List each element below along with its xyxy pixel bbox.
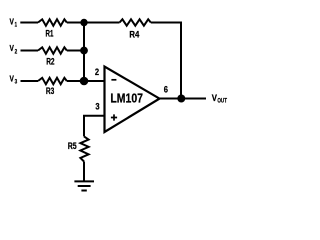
node V1 input label (10, 16, 18, 28)
wire R2 to summing node (67, 50, 84, 52)
node V2 input label (10, 43, 18, 55)
wire R1 to summing node (67, 22, 84, 24)
svg-text:2: 2 (95, 67, 99, 77)
svg-text:V: V (10, 43, 15, 53)
svg-text:R2: R2 (46, 55, 54, 66)
svg-text:3: 3 (15, 80, 18, 86)
svg-text:V: V (212, 93, 217, 103)
svg-text:6: 6 (164, 85, 168, 95)
junction dot node A (R1) (80, 19, 87, 26)
wire V3 to R3 (21, 80, 39, 82)
svg-text:LM107: LM107 (110, 91, 143, 106)
svg-text:3: 3 (95, 102, 99, 112)
wire R4 to output node (151, 23, 181, 99)
svg-text:R3: R3 (46, 85, 54, 96)
resistor R5 (80, 136, 88, 161)
svg-text:R4: R4 (129, 29, 140, 40)
svg-text:R5: R5 (68, 140, 77, 151)
svg-text:OUT: OUT (217, 98, 227, 105)
resistor R2 (38, 47, 67, 53)
wire V1 to R1 (20, 22, 38, 24)
node VOUT label (212, 93, 227, 105)
wire R5 to ground (83, 162, 85, 182)
wire R3 to op-amp pin 2 (67, 80, 105, 82)
ground (74, 180, 94, 182)
svg-text:R1: R1 (46, 28, 54, 39)
junction dot node A (R3 / pin 2) (80, 77, 89, 86)
pin minus sign (111, 79, 116, 81)
junction dot node A (R2) (80, 47, 88, 55)
pin plus sign (111, 114, 117, 120)
resistor R4 (120, 19, 151, 25)
svg-text:2: 2 (15, 49, 18, 55)
wire V2 to R2 (21, 50, 39, 52)
svg-text:V: V (10, 16, 15, 26)
op-amp U1 LM107 (105, 67, 160, 133)
resistor R1 (38, 19, 67, 25)
resistor R3 (38, 78, 67, 84)
junction dot output node (177, 95, 185, 103)
node V3 input label (10, 73, 18, 85)
wire op-amp output (160, 98, 207, 100)
wire summing bus vertical (83, 23, 85, 82)
wire summing node to R4 (84, 22, 120, 24)
svg-text:1: 1 (15, 22, 18, 28)
wire pin 3 to R5 (84, 116, 105, 137)
svg-text:V: V (10, 73, 15, 83)
